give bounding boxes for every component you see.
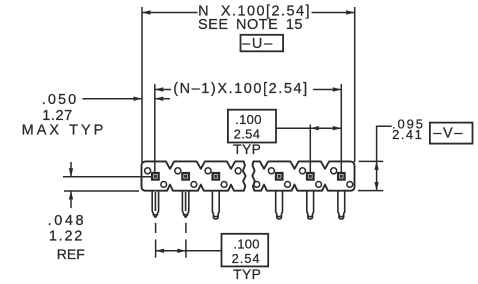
wire: .048 lower extension line xyxy=(64,190,139,192)
leader: from upper .100 box to dimension line xyxy=(276,127,310,129)
dimension line: (N-1) pitch, left segment xyxy=(155,89,171,91)
svg-text:MAX TYP: MAX TYP xyxy=(22,122,107,138)
svg-text:–U–: –U– xyxy=(242,36,274,52)
arrow: (N-1) right xyxy=(333,87,342,91)
wire: pin1 centerline dashes below pin xyxy=(155,223,157,233)
pin tail 1 (pointed) xyxy=(152,191,158,218)
arrow: top .100 right xyxy=(333,126,342,130)
pin tail 2 (pointed) xyxy=(182,191,188,218)
pin tail 4 xyxy=(276,191,283,219)
svg-text:.048: .048 xyxy=(48,213,87,229)
svg-text:.100: .100 xyxy=(235,112,262,127)
hole circle top, unit6 xyxy=(331,168,337,174)
arrow: .050 at pin center pointing left xyxy=(155,97,164,101)
wire: extension line pin5 (x=310.3) xyxy=(309,125,311,173)
hole circle top, unit3 xyxy=(205,168,211,174)
arrow: .050 at body edge pointing right xyxy=(134,97,143,101)
arrow: bottom .100 left xyxy=(156,249,165,253)
wire: .095 bottom extension line xyxy=(358,190,383,192)
dimension line: N X.100 top, right segment xyxy=(312,12,355,14)
svg-text:.100: .100 xyxy=(233,236,260,251)
svg-text:TYP: TYP xyxy=(233,142,261,157)
arrow: .048 up at lower line xyxy=(69,191,73,200)
hole circle bottom, unit2 xyxy=(191,182,197,188)
body circles xyxy=(145,168,353,188)
body right section xyxy=(252,161,354,190)
pin square 3 xyxy=(211,172,220,181)
dimension line: top .100 pitch xyxy=(310,127,341,129)
pins below body xyxy=(152,191,345,219)
leader: .050 dimension left leader xyxy=(82,98,142,100)
dimension line: .095 vertical xyxy=(376,161,378,190)
connector body outline xyxy=(142,161,355,190)
box: datum -V- xyxy=(430,123,473,144)
wire: .050 right tail xyxy=(155,98,170,100)
hole circle bottom, unit4 xyxy=(285,182,291,188)
hole circle top, unit2 xyxy=(175,168,181,174)
hole circle bottom, phantom unit right xyxy=(254,182,260,188)
svg-text:.050: .050 xyxy=(42,92,79,108)
pin square 2 xyxy=(181,172,190,181)
pin square 4 xyxy=(275,172,284,181)
box: .100/2.54 bottom dimension box xyxy=(222,234,269,267)
pin tail 6 xyxy=(338,191,345,219)
hole circle bottom, unit5 xyxy=(316,182,322,188)
wire: .048 upper arrow stem xyxy=(70,162,72,177)
wire: left extension line of top N X dimension (x=142) xyxy=(141,7,143,162)
svg-text:–V–: –V– xyxy=(433,126,464,142)
dimension line: (N-1) pitch, right segment xyxy=(313,89,341,91)
hole circle bottom, unit6 xyxy=(347,182,353,188)
pin tail 5 xyxy=(307,191,314,219)
hole circle bottom, unit1 xyxy=(161,182,167,188)
wire: pin2 centerline dashes below pin xyxy=(185,223,187,233)
arrow: top dim right xyxy=(346,10,355,14)
pin square 6 xyxy=(337,172,346,181)
arrow: top .100 left xyxy=(310,126,319,130)
arrow: top dim left xyxy=(142,10,151,14)
wire: .048 upper extension line xyxy=(63,176,151,178)
dimension line: bottom .100 pitch xyxy=(156,250,222,252)
box: datum -U- xyxy=(241,35,284,52)
wire: extension line first pin (x=154.8) xyxy=(154,84,156,172)
svg-text:(N–1)X.100[2.54]: (N–1)X.100[2.54] xyxy=(173,81,309,97)
hole circle bottom, unit3 xyxy=(221,182,227,188)
leader: bracket for .095 text xyxy=(377,126,392,161)
arrow: bottom .100 right xyxy=(177,249,186,253)
svg-text:TYP: TYP xyxy=(233,267,261,282)
pin cross-section squares xyxy=(151,172,346,181)
arrow: .048 down at upper line xyxy=(69,168,73,177)
svg-text:2.54: 2.54 xyxy=(234,127,261,142)
dimension line: N X.100 top, left segment xyxy=(142,12,198,14)
box: .100/2.54 upper dimension box xyxy=(228,110,276,143)
pin square 1 xyxy=(151,172,160,181)
wire: extension line last pin (x=341.3) xyxy=(340,84,342,172)
svg-text:SEE NOTE 15: SEE NOTE 15 xyxy=(198,17,303,33)
pin square 5 xyxy=(306,172,315,181)
svg-text:2.54: 2.54 xyxy=(232,251,261,266)
pin tail 3 xyxy=(212,191,219,219)
wire: .095 top extension line xyxy=(359,160,384,162)
body left section xyxy=(142,161,246,190)
wire: .048 lower arrow stem xyxy=(70,191,72,208)
arrow: .095 down xyxy=(374,182,378,191)
wire: right extension line of top N X dimension (x=354.7) xyxy=(354,7,356,162)
hole circle top, unit1 xyxy=(145,168,151,174)
svg-text:REF: REF xyxy=(57,246,85,262)
hole circle top, unit4 xyxy=(268,168,274,174)
arrow: .095 up xyxy=(374,161,378,170)
arrow: (N-1) left xyxy=(155,87,164,91)
hole circle top, phantom unit xyxy=(235,168,241,174)
svg-text:2.41: 2.41 xyxy=(392,127,423,142)
svg-text:1.22: 1.22 xyxy=(49,228,84,244)
hole circle top, unit5 xyxy=(300,168,306,174)
